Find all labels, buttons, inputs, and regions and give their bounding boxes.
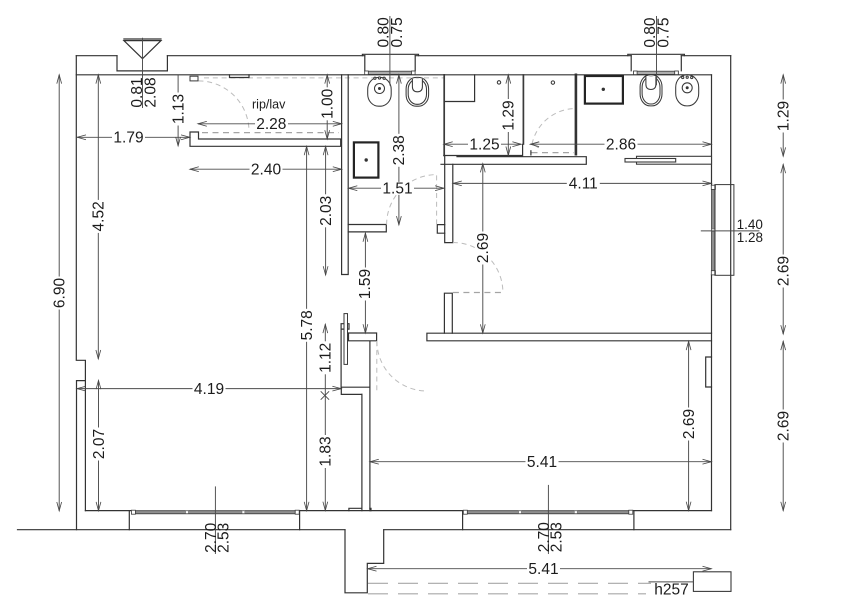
svg-text:1.13: 1.13: [170, 94, 187, 124]
dim 2.38: [391, 75, 408, 225]
svg-text:1.59: 1.59: [357, 269, 374, 299]
bottom wall inner line: [85, 510, 711, 512]
svg-text:5.41: 5.41: [527, 454, 557, 471]
shower tray: [444, 75, 474, 102]
bidet 1: [368, 77, 392, 106]
svg-text:h257: h257: [654, 581, 688, 598]
opening dashed line: [453, 292, 503, 294]
right wall outer: [730, 56, 732, 530]
svg-text:6.90: 6.90: [52, 278, 69, 309]
svg-text:1.79: 1.79: [113, 130, 143, 147]
top wall outer line: [76, 55, 730, 57]
top wall inner line: [76, 74, 711, 76]
svg-text:2.53: 2.53: [215, 523, 232, 553]
dim 0.80/0.75 window2: [642, 16, 672, 85]
dim 1.29 right outside: [776, 75, 793, 156]
dim 6.90: [52, 75, 69, 511]
svg-text:2.40: 2.40: [251, 162, 282, 179]
dim 2.69 right outside mid: [776, 164, 793, 334]
bathroom2 pocket door dashes: [530, 151, 532, 155]
left wall upper: [76, 56, 85, 530]
bidet 2: [676, 75, 699, 106]
sink bathroom 2: [585, 76, 623, 104]
bathroom2 entry left wall: [522, 75, 524, 144]
entrance recess: [117, 56, 167, 71]
right wall pilaster notch: [706, 357, 712, 387]
dim 1.83: [318, 396, 335, 511]
entrance center line: [142, 38, 144, 108]
right window glazing: [712, 186, 716, 275]
rip/lav door jamb box: [190, 76, 198, 81]
dim 5.41 lower: [368, 561, 712, 578]
bottom wall window1 left jamb: [128, 511, 130, 530]
dim 1.51: [349, 181, 444, 198]
bathroom1 bottom wall stub: [348, 225, 386, 232]
window recess 1 (bathroom 1): [362, 54, 418, 71]
svg-text:2.53: 2.53: [548, 522, 565, 552]
right wall inner: [711, 75, 713, 511]
dim 1.59: [357, 233, 374, 333]
living room wall band: [427, 333, 712, 341]
pocket wall C bracket: [341, 333, 376, 394]
dim 2.70/2.53 window1: [203, 486, 233, 554]
svg-text:rip/lav: rip/lav: [252, 98, 286, 112]
bottom wall window2 left jamb: [462, 511, 464, 530]
dim 2.69 right outside low: [776, 341, 793, 510]
beam dashed line under top wall: [204, 77, 444, 79]
dim 1.40 / 1.28: [701, 217, 763, 245]
bathroom2 door swing arc: [532, 109, 574, 145]
bottom window 1 glazing: [133, 511, 297, 514]
bottom wall outer line: [18, 529, 731, 531]
dim 1.13: [170, 75, 187, 146]
door D swing arc: [387, 175, 437, 225]
svg-text:1.25: 1.25: [469, 137, 499, 154]
WC 2: [640, 75, 662, 106]
svg-text:2.86: 2.86: [606, 137, 636, 154]
dim 2.03: [318, 146, 335, 275]
svg-text:2.38: 2.38: [391, 135, 408, 165]
interior wall foot pedestal: [349, 508, 371, 510]
h257 line: [649, 581, 694, 583]
sink bathroom 1: [354, 142, 379, 177]
wall band below bathroom1 (W6): [445, 156, 453, 243]
door D jamb notch: [437, 225, 444, 234]
svg-text:2.08: 2.08: [143, 77, 160, 107]
terrace dashed edge lines: [368, 582, 651, 584]
svg-text:0.75: 0.75: [655, 18, 672, 48]
WC 1: [406, 77, 429, 106]
cross marker: [321, 391, 329, 399]
ceiling light shower room: [497, 81, 500, 84]
niche step in top wall: [230, 75, 250, 78]
svg-text:2.03: 2.03: [318, 196, 335, 226]
svg-text:1.28: 1.28: [737, 230, 763, 245]
entrance direction triangle: [124, 39, 161, 59]
svg-text:1.00: 1.00: [320, 88, 337, 119]
dim 1.00: [320, 75, 337, 139]
dim 1.79: [77, 130, 190, 147]
dim 1.29 shower room: [501, 75, 518, 156]
svg-text:4.11: 4.11: [569, 176, 598, 193]
rip/lav pocket door dashes: [202, 132, 339, 134]
bottom window 2 glazing: [465, 511, 631, 514]
window recess 2 (bathroom 2): [628, 54, 685, 71]
dim 2.28: [198, 116, 342, 133]
svg-text:1.29: 1.29: [776, 101, 793, 131]
dim 4.11: [453, 176, 711, 193]
dim 2.40: [190, 162, 342, 179]
svg-text:2.69: 2.69: [776, 256, 793, 286]
svg-text:5.41: 5.41: [528, 561, 558, 578]
bottom wall window1 right jamb: [299, 511, 301, 530]
window sill 2: [634, 71, 679, 74]
bathroom1 right wall: [443, 75, 445, 156]
living room door leaf dashed: [376, 341, 378, 390]
bathroom2 entry right wall: [575, 75, 578, 154]
dim 1.12: [318, 324, 335, 395]
window sill 1: [365, 71, 415, 74]
bathroom bottom wall band: [441, 144, 586, 164]
svg-text:2.28: 2.28: [256, 116, 286, 133]
interior wall to bottom: [362, 387, 370, 510]
dim 2.70/2.53 window2: [536, 485, 566, 554]
door E swing arc: [453, 243, 503, 293]
dim 2.69 hall: [475, 164, 492, 334]
ceiling light bath2 entry: [551, 81, 554, 84]
svg-text:5.78: 5.78: [299, 310, 316, 340]
dim 1.25: [444, 137, 521, 154]
living room door swing arc: [377, 341, 427, 391]
radiator bathroom2: [637, 156, 712, 164]
pocket doorway wall line: [341, 324, 349, 389]
svg-text:1.51: 1.51: [382, 181, 412, 198]
dim 4.52: [91, 75, 108, 359]
bottom wall window2 right jamb: [633, 511, 635, 530]
svg-text:4.19: 4.19: [194, 381, 224, 398]
svg-text:1.12: 1.12: [318, 343, 335, 373]
central wall W2: [342, 75, 349, 275]
dim 5.41 upper: [370, 454, 711, 471]
entry pier: [444, 293, 452, 333]
svg-text:1.29: 1.29: [501, 100, 518, 130]
dim 5.78: [299, 146, 316, 510]
dim 2.86: [530, 137, 711, 154]
h257 box: [693, 572, 731, 592]
rip/lav door swing arc: [199, 81, 250, 131]
balcony pillar: [345, 530, 384, 593]
svg-text:2.07: 2.07: [91, 429, 108, 459]
dim 4.19: [77, 381, 341, 398]
right window outer box: [715, 185, 734, 276]
svg-text:2.69: 2.69: [681, 409, 698, 439]
dim 2.07: [91, 380, 108, 510]
dim 0.81 / 2.08: [129, 77, 160, 107]
svg-text:2.69: 2.69: [475, 233, 492, 263]
svg-text:0.75: 0.75: [389, 17, 406, 47]
svg-text:4.52: 4.52: [91, 201, 108, 231]
rip/lav lower wall: [190, 132, 341, 146]
svg-text:2.69: 2.69: [776, 411, 793, 441]
svg-text:1.83: 1.83: [318, 436, 335, 466]
pocket door leaf: [344, 314, 348, 365]
dim 0.80/0.75 window1: [376, 16, 406, 86]
dim 2.69 living interior: [681, 341, 698, 510]
